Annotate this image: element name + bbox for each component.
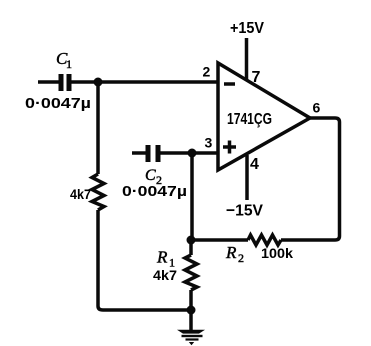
node A (C1 junction) xyxy=(94,78,103,87)
plus input symbol xyxy=(223,141,236,154)
wire output pin6 xyxy=(281,118,340,240)
svg-text:7: 7 xyxy=(252,69,261,86)
svg-text:4: 4 xyxy=(250,156,259,173)
svg-text:3: 3 xyxy=(205,135,213,151)
svg-text:R: R xyxy=(225,243,237,262)
svg-text:1741ÇG: 1741ÇG xyxy=(227,111,272,128)
wire pin4 to -15V xyxy=(245,155,249,200)
svg-text:4k7: 4k7 xyxy=(153,268,177,283)
wire left vertical lower + bottom horizontal xyxy=(98,210,191,310)
svg-text:1: 1 xyxy=(66,57,72,71)
svg-text:2: 2 xyxy=(238,251,244,265)
node B (pin3 junction) xyxy=(188,149,197,158)
resistor R2 xyxy=(248,235,281,245)
node C (feedback junction) xyxy=(187,236,196,245)
wire pin7 to +15V xyxy=(245,38,249,80)
resistor 4k7 (left) xyxy=(92,174,104,210)
svg-text:100k: 100k xyxy=(261,246,294,261)
svg-text:+15V: +15V xyxy=(230,20,264,37)
svg-text:0·0047µ: 0·0047µ xyxy=(25,95,91,112)
wire node B down to node C xyxy=(190,153,194,240)
svg-text:−15V: −15V xyxy=(226,203,263,220)
svg-text:6: 6 xyxy=(313,100,321,116)
svg-text:4k7: 4k7 xyxy=(70,187,91,202)
node D (ground junction) xyxy=(187,306,196,315)
resistor R1 xyxy=(185,255,197,290)
wire R2 to node C xyxy=(191,238,248,242)
wire R1 to ground node xyxy=(189,290,193,310)
svg-text:2: 2 xyxy=(203,64,211,80)
op-amp U1 xyxy=(218,63,310,170)
ground xyxy=(177,330,205,345)
wire C1 to pin2 xyxy=(71,80,218,84)
capacitor C1 xyxy=(38,74,69,91)
svg-text:0·0047µ: 0·0047µ xyxy=(122,183,187,200)
capacitor C2 xyxy=(132,145,158,162)
wire C2 to pin3 xyxy=(160,151,218,155)
wire left vertical (node A down to 4k7) xyxy=(96,82,100,174)
wire ground stem xyxy=(189,310,193,331)
svg-text:R: R xyxy=(156,248,168,267)
svg-text:C: C xyxy=(145,167,156,184)
minus input symbol xyxy=(224,82,235,86)
wire node C to R1 xyxy=(189,240,193,255)
